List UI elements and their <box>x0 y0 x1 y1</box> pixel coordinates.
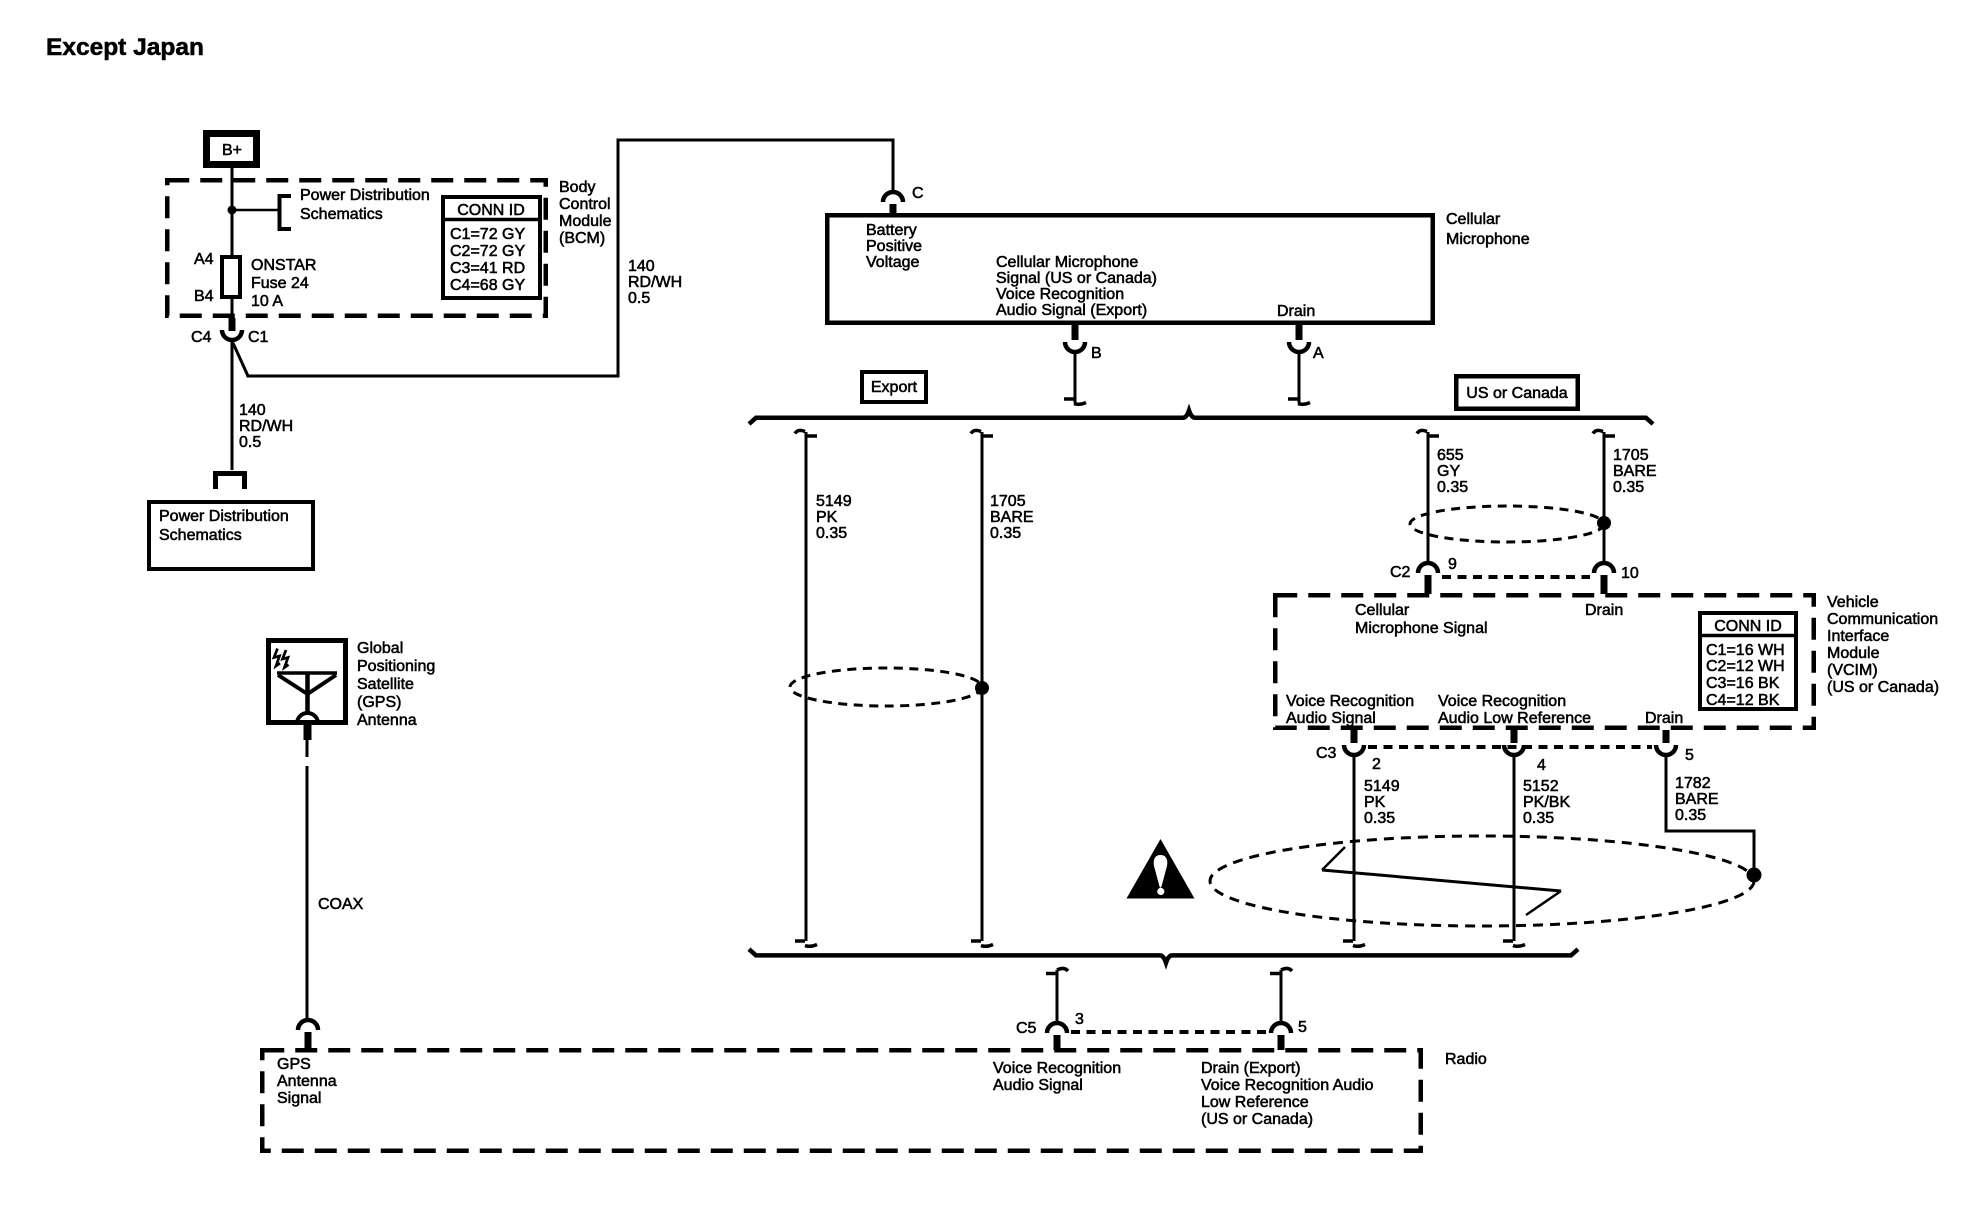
svg-text:C4=68 GY: C4=68 GY <box>450 277 525 294</box>
svg-text:Positive: Positive <box>866 238 922 255</box>
wire B to export bus <box>1074 354 1077 403</box>
svg-text:Drain (Export): Drain (Export) <box>1201 1060 1301 1077</box>
svg-text:140: 140 <box>628 258 655 275</box>
wire B+ to fuse <box>231 166 234 256</box>
module box Radio (dashed) <box>262 1050 1421 1151</box>
svg-text:Audio Signal: Audio Signal <box>993 1077 1083 1094</box>
svg-text:PK/BK: PK/BK <box>1523 794 1570 811</box>
svg-text:Drain: Drain <box>1585 602 1623 619</box>
hook top of 5149 <box>795 430 817 436</box>
svg-text:2: 2 <box>1372 756 1381 773</box>
svg-text:0.35: 0.35 <box>990 525 1021 542</box>
warning triangle <box>1127 839 1195 899</box>
svg-text:Antenna: Antenna <box>277 1073 337 1090</box>
wire A to bus <box>1298 354 1301 403</box>
svg-text:Schematics: Schematics <box>300 206 383 223</box>
wire fuse to C4 connector <box>231 297 234 319</box>
svg-text:COAX: COAX <box>318 896 364 913</box>
module box Cellular Microphone <box>827 215 1433 323</box>
svg-text:(VCIM): (VCIM) <box>1827 662 1878 679</box>
svg-text:Module: Module <box>1827 645 1880 662</box>
wire 655 GY (US/Canada mic signal) <box>1427 432 1430 562</box>
svg-text:10 A: 10 A <box>251 293 283 310</box>
node shield to drain (export) <box>975 681 989 695</box>
label Voice Recognition Audio Signal (radio) <box>993 1060 1121 1094</box>
svg-text:0.5: 0.5 <box>628 290 650 307</box>
svg-text:CONN ID: CONN ID <box>1714 618 1782 635</box>
svg-text:Body: Body <box>559 179 595 196</box>
fuse ONSTAR Fuse 24 <box>222 257 240 297</box>
power symbol B+ <box>207 134 257 165</box>
svg-text:C4=12 BK: C4=12 BK <box>1706 692 1780 709</box>
wire <box>617 139 895 142</box>
svg-text:0.35: 0.35 <box>1437 479 1468 496</box>
label Cellular Microphone (module name) <box>1446 211 1530 248</box>
svg-text:(US or Canada): (US or Canada) <box>1827 679 1939 696</box>
connector 4 (cup) <box>1504 730 1524 755</box>
hook bottom of 1705 <box>971 941 993 946</box>
svg-text:Control: Control <box>559 196 611 213</box>
hook top of 1705 right <box>1593 430 1615 436</box>
svg-text:Cellular: Cellular <box>1446 211 1501 228</box>
svg-text:RD/WH: RD/WH <box>239 418 293 435</box>
wire <box>247 375 620 378</box>
svg-text:B4: B4 <box>194 288 214 305</box>
svg-text:Communication: Communication <box>1827 611 1938 628</box>
svg-text:Antenna: Antenna <box>357 712 417 729</box>
wire 1782 BARE (drain to shield) <box>1666 757 1754 874</box>
svg-text:(GPS): (GPS) <box>357 694 401 711</box>
svg-text:Audio Signal (Export): Audio Signal (Export) <box>996 302 1147 319</box>
svg-text:Interface: Interface <box>1827 628 1889 645</box>
shield ellipse (export pair) <box>790 668 982 706</box>
connector C4/C1 (cup) <box>222 318 242 340</box>
svg-text:Power Distribution: Power Distribution <box>159 508 289 525</box>
wire branch to power distribution reference <box>232 209 278 212</box>
label 140 RD/WH 0.5 (down feed) <box>239 402 293 451</box>
svg-text:Battery: Battery <box>866 222 917 239</box>
svg-text:Vehicle: Vehicle <box>1827 594 1879 611</box>
wire coax upper <box>306 738 309 757</box>
svg-text:CONN ID: CONN ID <box>457 202 525 219</box>
hook top of 655 <box>1417 430 1439 436</box>
svg-text:Drain: Drain <box>1645 710 1683 727</box>
svg-text:5152: 5152 <box>1523 778 1559 795</box>
svg-text:B: B <box>1091 345 1102 362</box>
in-line connector to power distribution <box>216 474 245 490</box>
tag box Export <box>862 372 926 402</box>
svg-text:C5: C5 <box>1016 1020 1037 1037</box>
connector 9 (dome) <box>1418 563 1438 594</box>
svg-text:10: 10 <box>1621 565 1639 582</box>
label 1705 BARE 0.35 <box>990 493 1034 542</box>
tag box US or Canada <box>1456 376 1578 409</box>
svg-text:C2: C2 <box>1390 564 1411 581</box>
connector 5 (cup, VCIM) <box>1656 730 1676 755</box>
svg-text:5: 5 <box>1685 747 1694 764</box>
svg-text:ONSTAR: ONSTAR <box>251 257 316 274</box>
svg-text:C4: C4 <box>191 329 212 346</box>
svg-text:655: 655 <box>1437 447 1464 464</box>
svg-text:Audio Signal: Audio Signal <box>1286 710 1376 727</box>
svg-text:1705: 1705 <box>990 493 1026 510</box>
label Voice Recognition Audio Low Reference (VCIM) <box>1438 693 1591 727</box>
connector 3 (dome) <box>1047 1023 1067 1050</box>
svg-text:Microphone: Microphone <box>1446 231 1530 248</box>
svg-text:Global: Global <box>357 640 403 657</box>
svg-text:C3=41 RD: C3=41 RD <box>450 260 525 277</box>
svg-text:C1: C1 <box>248 329 269 346</box>
hook top pin 3 <box>1046 968 1068 973</box>
svg-text:Power Distribution: Power Distribution <box>300 187 430 204</box>
node junction on B+ feed <box>228 206 237 215</box>
svg-text:RD/WH: RD/WH <box>628 274 682 291</box>
hook bottom wire 4 <box>1503 941 1525 946</box>
svg-text:A: A <box>1313 345 1324 362</box>
connector 5 (dome, radio) <box>1271 1023 1291 1050</box>
wire <box>617 139 620 378</box>
bus brace (bottom) <box>749 949 1578 963</box>
svg-text:Signal (US or Canada): Signal (US or Canada) <box>996 270 1157 287</box>
svg-text:5: 5 <box>1298 1019 1307 1036</box>
svg-text:Signal: Signal <box>277 1090 321 1107</box>
shield ellipse (US/Canada pair) <box>1410 506 1604 542</box>
svg-text:C2=72 GY: C2=72 GY <box>450 243 525 260</box>
wire pin link 2-4-5 (dashed) <box>1368 745 1652 749</box>
svg-text:BARE: BARE <box>1613 463 1657 480</box>
label Battery Positive Voltage <box>866 222 922 271</box>
label Cellular Microphone Signal (VCIM) <box>1355 602 1488 637</box>
label Vehicle Communication Interface Module (VCIM) <box>1827 594 1939 696</box>
label 140 RD/WH 0.5 (BCM feed) <box>628 258 682 307</box>
svg-text:Voice Recognition: Voice Recognition <box>996 286 1124 303</box>
svg-text:Export: Export <box>871 379 918 396</box>
svg-text:5149: 5149 <box>1364 778 1400 795</box>
svg-text:Voltage: Voltage <box>866 254 919 271</box>
table CONN ID (BCM) <box>441 197 542 298</box>
connector A (cup) <box>1289 325 1309 352</box>
svg-text:Voice Recognition: Voice Recognition <box>1438 693 1566 710</box>
label 5149 PK 0.35 <box>816 493 852 542</box>
module box VCIM (dashed) <box>1275 595 1814 728</box>
svg-text:Low Reference: Low Reference <box>1201 1094 1309 1111</box>
label ONSTAR Fuse 24 10 A <box>251 257 316 310</box>
hook bottom wire 2 <box>1343 941 1365 946</box>
svg-text:0.35: 0.35 <box>816 525 847 542</box>
svg-text:Module: Module <box>559 213 612 230</box>
connector GPS antenna signal (dome) <box>298 1020 318 1050</box>
svg-text:C1=16 WH: C1=16 WH <box>1706 642 1785 659</box>
svg-text:5149: 5149 <box>816 493 852 510</box>
svg-text:Microphone Signal: Microphone Signal <box>1355 620 1488 637</box>
antenna module GPS <box>269 641 346 724</box>
node drain to shield (large) <box>1747 868 1762 883</box>
label 1782 BARE 0.35 <box>1675 775 1719 824</box>
label Body Control Module (BCM) <box>559 179 612 247</box>
module box BCM (dashed) <box>167 180 546 316</box>
svg-text:Voice Recognition Audio: Voice Recognition Audio <box>1201 1077 1374 1094</box>
svg-text:0.35: 0.35 <box>1675 807 1706 824</box>
connector 2 (cup) <box>1344 730 1364 755</box>
svg-text:Positioning: Positioning <box>357 658 435 675</box>
wire pin link 3 to 5 (dashed) <box>1071 1030 1267 1034</box>
svg-text:4: 4 <box>1537 757 1546 774</box>
label Drain (Export) Voice Recognition Audio Low Reference <box>1201 1060 1374 1128</box>
label GPS Antenna Signal <box>277 1056 337 1107</box>
svg-text:Voice Recognition: Voice Recognition <box>993 1060 1121 1077</box>
wire C4 down to power distribution <box>231 342 234 470</box>
svg-text:Fuse 24: Fuse 24 <box>251 275 309 292</box>
svg-text:Voice Recognition: Voice Recognition <box>1286 693 1414 710</box>
label 5149 PK 0.35 (VCIM) <box>1364 778 1400 827</box>
svg-text:Schematics: Schematics <box>159 527 242 544</box>
svg-text:US or Canada: US or Canada <box>1466 385 1567 402</box>
wire 5149 PK (VCIM audio signal) <box>1353 757 1356 941</box>
label 1705 BARE 0.35 <box>1613 447 1657 496</box>
svg-text:GY: GY <box>1437 463 1460 480</box>
wire 1705 BARE (export shield) <box>981 432 984 941</box>
hook top pin 5 <box>1270 968 1292 973</box>
svg-text:0.35: 0.35 <box>1613 479 1644 496</box>
label Cellular Microphone Signal / Voice Recognition <box>996 254 1157 319</box>
label 5152 PK/BK 0.35 <box>1523 778 1570 827</box>
svg-text:GPS: GPS <box>277 1056 311 1073</box>
svg-text:C2=12 WH: C2=12 WH <box>1706 658 1785 675</box>
svg-text:BARE: BARE <box>990 509 1034 526</box>
svg-text:B+: B+ <box>222 142 242 159</box>
wire 1705 BARE (US/Canada drain) <box>1603 432 1606 562</box>
wire coax stub below GPS antenna <box>304 722 312 740</box>
hook bottom of 5149 <box>795 941 817 946</box>
svg-text:3: 3 <box>1075 1011 1084 1028</box>
box Power Distribution Schematics <box>149 502 313 569</box>
svg-text:Except Japan: Except Japan <box>46 34 204 61</box>
svg-text:1705: 1705 <box>1613 447 1649 464</box>
wire drop to connector C <box>892 139 895 192</box>
svg-text:C3: C3 <box>1316 745 1337 762</box>
svg-text:Cellular: Cellular <box>1355 602 1410 619</box>
twisted pair symbol <box>1322 847 1561 915</box>
wire pin link 9 to 10 (dashed) <box>1442 575 1590 579</box>
connector 10 (dome) <box>1594 563 1614 594</box>
label Voice Recognition Audio Signal (VCIM) <box>1286 693 1414 727</box>
svg-text:0.35: 0.35 <box>1523 810 1554 827</box>
label 655 GY 0.35 <box>1437 447 1468 496</box>
wire coax lower <box>306 766 309 1020</box>
hook A at bus <box>1288 399 1310 404</box>
shield ellipse (large, VCIM pair) <box>1210 836 1754 926</box>
table CONN ID (VCIM) <box>1698 613 1796 709</box>
svg-text:9: 9 <box>1448 556 1457 573</box>
svg-text:C3=16 BK: C3=16 BK <box>1706 675 1780 692</box>
svg-text:140: 140 <box>239 402 266 419</box>
svg-text:0.5: 0.5 <box>239 434 261 451</box>
label Global Positioning Satellite (GPS) Antenna <box>357 640 435 729</box>
svg-text:PK: PK <box>1364 794 1386 811</box>
hook top of 1705 <box>971 430 993 436</box>
off-page reference bracket <box>280 196 292 229</box>
wire 5149 PK (export pair) <box>805 432 808 941</box>
connector C (dome) <box>883 192 903 214</box>
svg-text:C: C <box>912 185 924 202</box>
svg-text:Satellite: Satellite <box>357 676 414 693</box>
svg-text:0.35: 0.35 <box>1364 810 1395 827</box>
svg-text:PK: PK <box>816 509 838 526</box>
svg-text:Drain: Drain <box>1277 303 1315 320</box>
node shield to drain (US/Canada) <box>1597 516 1611 530</box>
connector B (cup) <box>1065 325 1085 352</box>
svg-text:1782: 1782 <box>1675 775 1711 792</box>
svg-text:(US or Canada): (US or Canada) <box>1201 1111 1313 1128</box>
svg-text:Radio: Radio <box>1445 1051 1487 1068</box>
bus brace (top) <box>749 411 1653 425</box>
svg-text:C1=72 GY: C1=72 GY <box>450 226 525 243</box>
svg-text:Cellular Microphone: Cellular Microphone <box>996 254 1138 271</box>
svg-text:Audio Low Reference: Audio Low Reference <box>1438 710 1591 727</box>
label Power Distribution Schematics (reference) <box>300 187 430 223</box>
connector 3 at radio (wire from bus) <box>1056 970 1059 1023</box>
hook B at bus <box>1064 399 1086 404</box>
svg-text:(BCM): (BCM) <box>559 230 605 247</box>
wire C1 to BCM top feed (diagonal + horizontal + vertical + top run) <box>233 343 248 376</box>
wire 5152 PK/BK (audio low reference) <box>1513 757 1516 941</box>
svg-text:BARE: BARE <box>1675 791 1719 808</box>
connector 5 at radio (wire from bus) <box>1280 970 1283 1023</box>
svg-text:A4: A4 <box>194 251 214 268</box>
